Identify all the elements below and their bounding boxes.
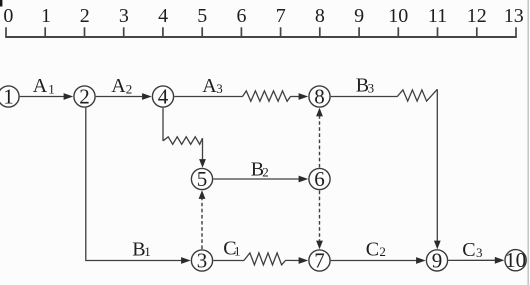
svg-text:6: 6 [237, 5, 247, 27]
svg-text:4: 4 [158, 5, 168, 27]
svg-text:9: 9 [354, 5, 364, 27]
svg-text:5: 5 [197, 167, 208, 191]
node 1 [0, 84, 19, 108]
scan artifact top-left [0, 0, 2, 7]
dashed dummy arrow 6 down to 7 [319, 191, 321, 241]
svg-text:2: 2 [262, 164, 269, 179]
node 3 [191, 248, 212, 272]
svg-text:C: C [462, 239, 475, 261]
svg-text:1: 1 [144, 244, 151, 259]
ruler baseline [5, 36, 517, 38]
label C1 [223, 237, 240, 259]
node 7 [309, 248, 330, 272]
svg-text:1: 1 [3, 84, 14, 108]
node 2 [74, 84, 95, 108]
label C3 [462, 239, 482, 261]
label B2 [251, 158, 269, 180]
wire C1 with slack zigzag, 3 to 7 [213, 260, 244, 262]
svg-text:2: 2 [79, 84, 90, 108]
svg-text:10: 10 [505, 248, 526, 272]
svg-text:7: 7 [314, 248, 325, 272]
svg-text:13: 13 [504, 5, 524, 27]
svg-text:4: 4 [158, 84, 169, 108]
label C2 [366, 238, 386, 260]
svg-text:12: 12 [467, 5, 487, 27]
node 8 [309, 84, 330, 108]
dashed dummy arrow 6 up to 8 [319, 116, 321, 167]
svg-text:3: 3 [476, 245, 483, 260]
svg-text:5: 5 [197, 5, 207, 27]
svg-text:9: 9 [432, 248, 443, 272]
svg-text:1: 1 [41, 5, 51, 27]
dashed dummy arrow 3 up to 5 [201, 199, 203, 249]
ruler ticks [6, 27, 516, 37]
wire C2 arrow 7 to 9 [331, 260, 417, 262]
svg-text:8: 8 [315, 5, 325, 27]
node 5 [191, 167, 212, 191]
svg-text:1: 1 [234, 243, 241, 258]
wire B1 from node 2 down then right to 3 [86, 108, 183, 261]
label A1 [33, 75, 55, 97]
label A2 [111, 75, 132, 97]
svg-text:3: 3 [197, 248, 208, 272]
ruler numbers 0-13 [3, 5, 523, 27]
wire B3 with slack zigzag, 8 right then down to 9 [331, 96, 398, 98]
wire A1 arrow 1 to 2 [20, 96, 65, 98]
node 6 [309, 167, 330, 191]
svg-text:6: 6 [314, 167, 325, 191]
svg-text:2: 2 [379, 244, 386, 259]
svg-text:A: A [33, 75, 48, 97]
wire B2 arrow 5 to 6 [213, 178, 299, 180]
svg-text:3: 3 [119, 5, 129, 27]
svg-text:7: 7 [276, 5, 286, 27]
svg-text:A: A [202, 75, 217, 97]
svg-text:1: 1 [48, 81, 55, 96]
svg-text:8: 8 [314, 84, 325, 108]
svg-text:C: C [366, 238, 379, 260]
svg-text:0: 0 [3, 5, 13, 27]
wire slack zigzag from 4 down to 5 [162, 108, 164, 141]
svg-text:3: 3 [216, 81, 223, 96]
svg-text:10: 10 [388, 5, 408, 27]
label A3 [202, 75, 222, 97]
node 9 [426, 248, 447, 272]
svg-text:11: 11 [428, 5, 447, 27]
label B3 [356, 74, 374, 96]
wire C3 arrow 9 to 10 [448, 259, 496, 261]
label B1 [132, 239, 151, 261]
scan artifact right border [527, 0, 529, 285]
wire A2 arrow 2 to 4 [96, 96, 143, 98]
svg-text:3: 3 [368, 80, 375, 95]
node 10 [505, 248, 526, 272]
svg-text:A: A [111, 75, 126, 97]
svg-text:2: 2 [80, 5, 90, 27]
node 4 [152, 84, 173, 108]
wire A3 with slack zigzag, arrow 4 to 8 [174, 96, 242, 98]
svg-text:2: 2 [126, 81, 133, 96]
